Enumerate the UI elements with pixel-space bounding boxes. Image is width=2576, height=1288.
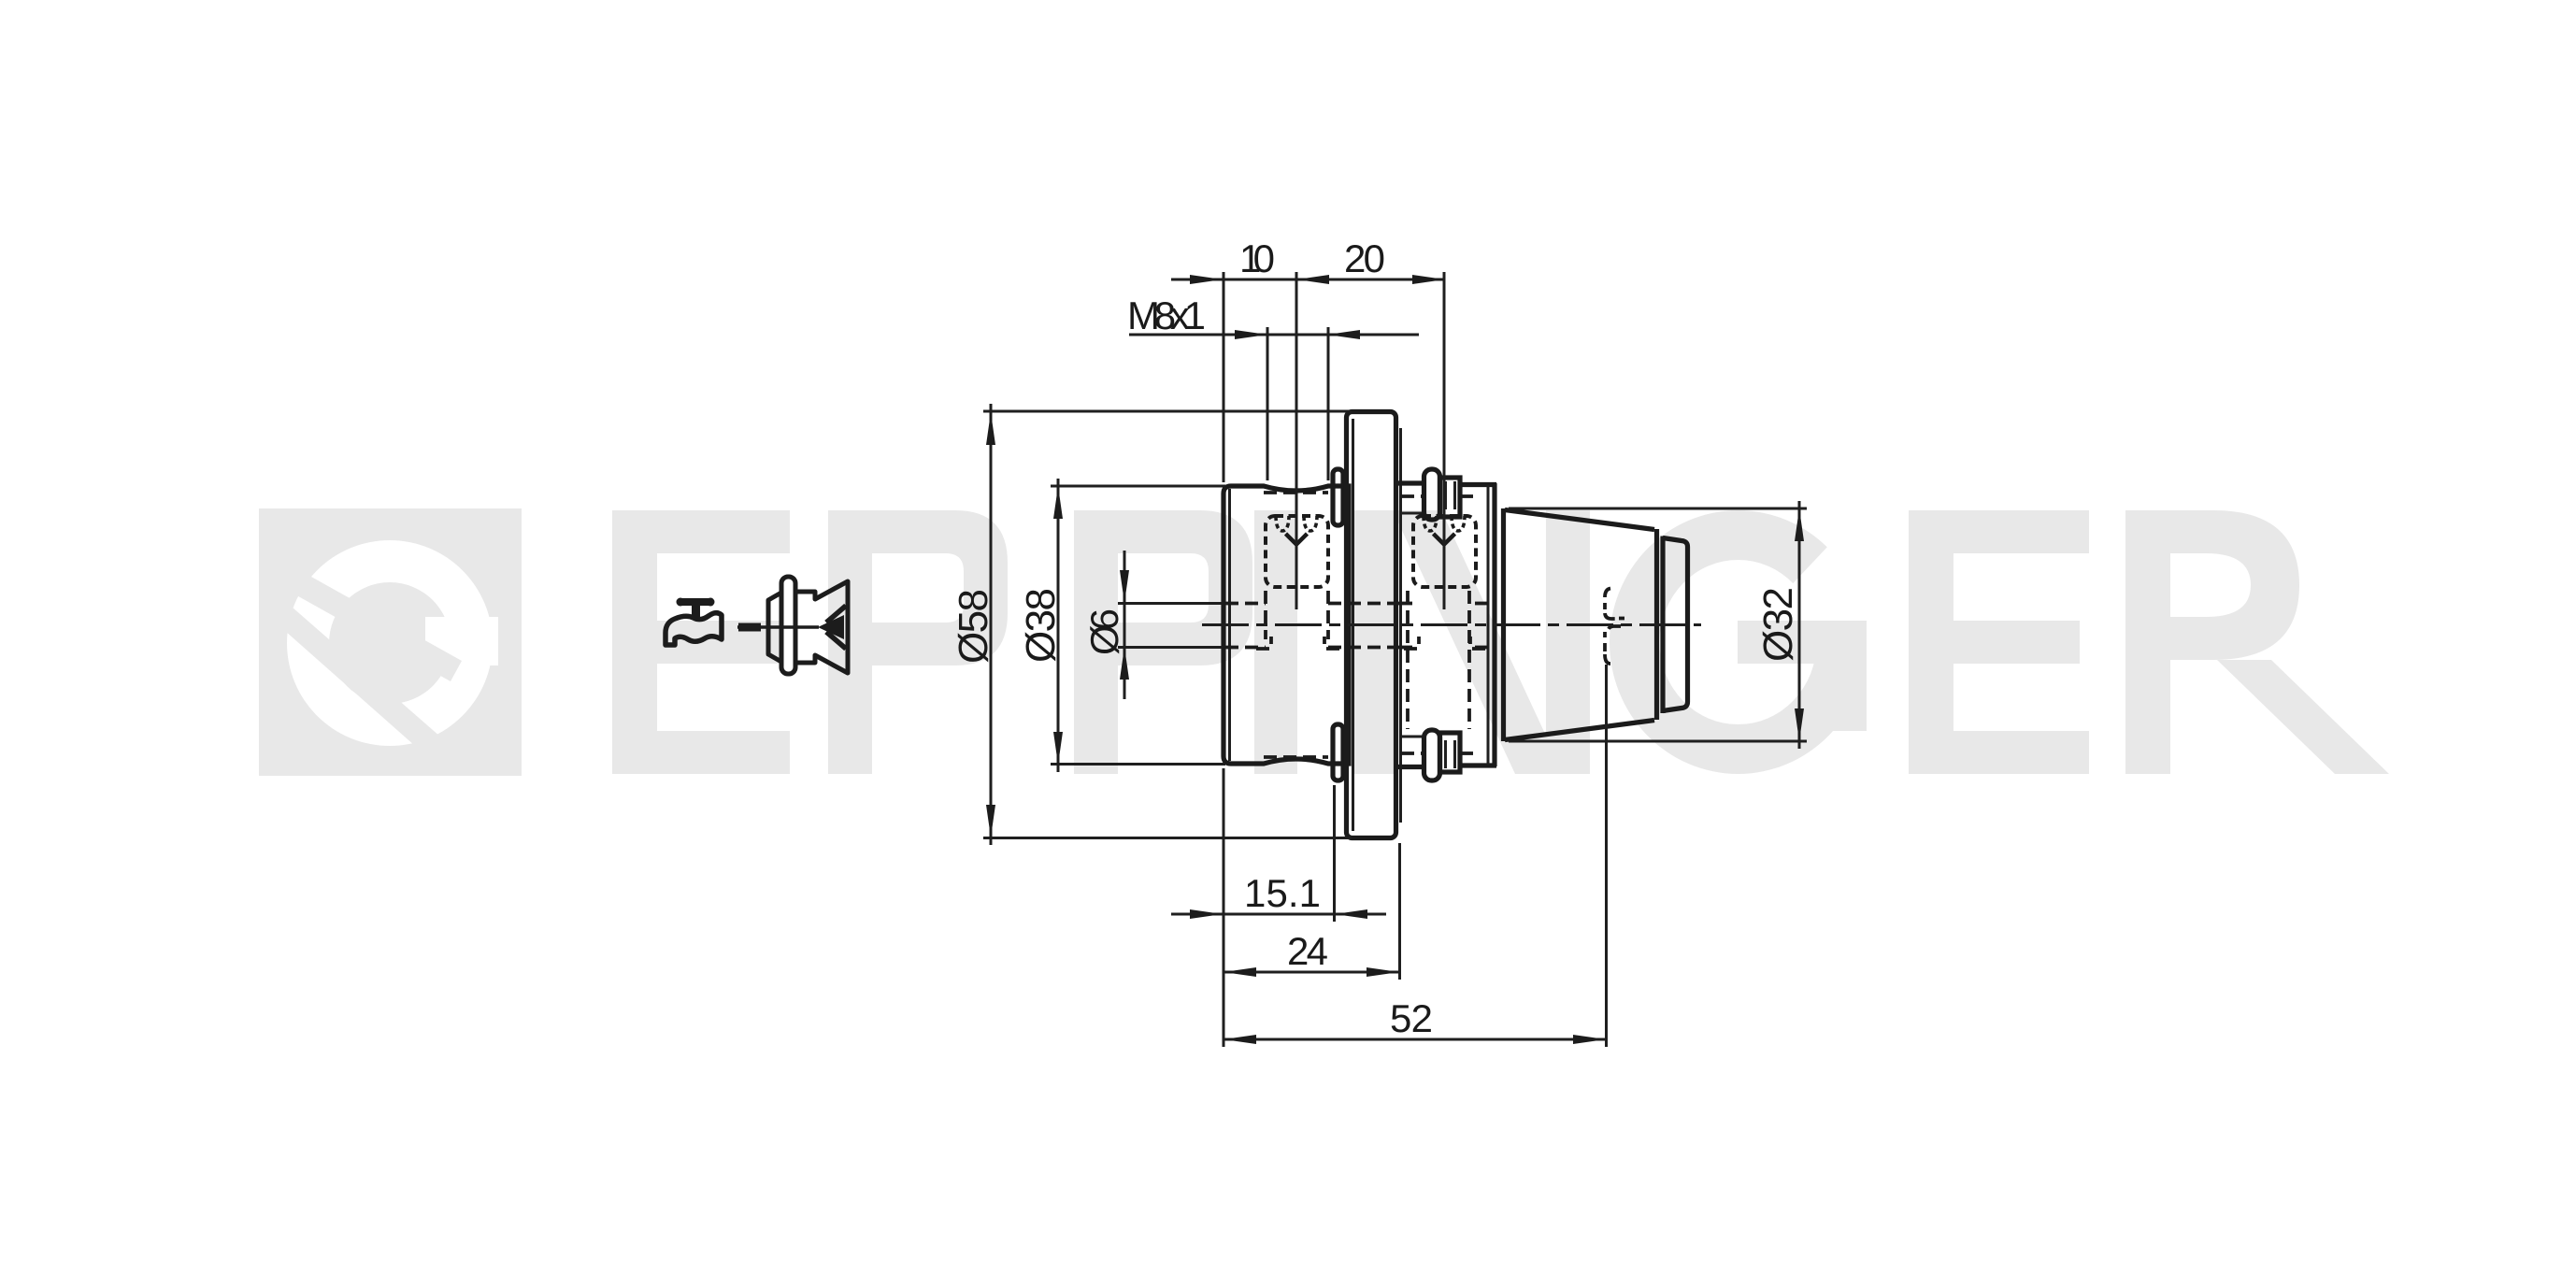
svg-text:Ø38: Ø38 (1018, 588, 1064, 663)
svg-text:10: 10 (1239, 236, 1275, 280)
svg-text:Ø32: Ø32 (1755, 587, 1801, 662)
svg-text:24: 24 (1287, 929, 1328, 973)
svg-text:52: 52 (1390, 996, 1433, 1040)
svg-text:M8x1: M8x1 (1127, 293, 1206, 337)
svg-text:Ø58: Ø58 (951, 589, 996, 664)
svg-text:15.1: 15.1 (1244, 871, 1321, 915)
svg-text:Ø6: Ø6 (1082, 608, 1126, 655)
svg-text:20: 20 (1344, 236, 1385, 280)
